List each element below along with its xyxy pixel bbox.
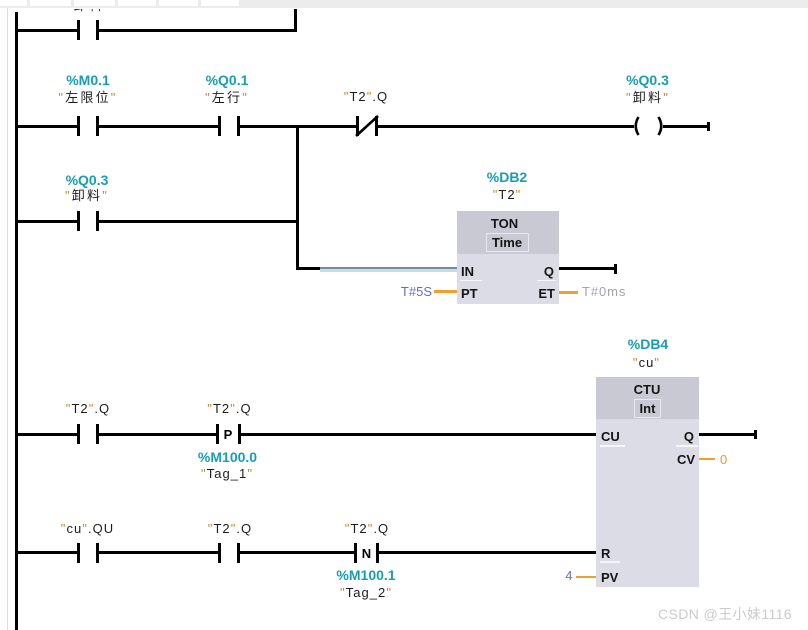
left border line	[7, 8, 8, 630]
tag %M100.0	[198, 450, 257, 464]
tag name Tag_1	[201, 467, 253, 481]
tag "cu".QU	[61, 522, 114, 536]
contact "T2".Q (NC)	[356, 116, 359, 136]
tag name 卸料 (coil)	[626, 91, 670, 105]
network 1 clipped tag text	[67, 9, 111, 15]
top toolbar strip	[0, 0, 808, 8]
wire rung5 rail to contact1	[16, 551, 77, 554]
tag name cu	[633, 356, 660, 370]
wire Q output CTU	[699, 433, 754, 436]
tag "T2".Q (rung5 c3)	[345, 522, 389, 536]
TON title	[491, 217, 518, 230]
wire Q output	[559, 267, 614, 270]
contact N edge rung5	[354, 543, 357, 563]
wire rung1 contact to branch	[99, 29, 297, 32]
pin IN	[461, 265, 474, 278]
contact %Q0.1 (NO)	[218, 116, 221, 136]
tag %Q0.3 (rung3)	[66, 173, 109, 187]
wire rung5 c2 to c3	[240, 551, 354, 554]
wire rung4 c1 to c2	[99, 433, 218, 436]
wire rung3 rail to contact	[16, 220, 77, 223]
contact "cu".QU (NO)	[77, 543, 80, 563]
wire rung2 coil to end	[663, 125, 707, 128]
contact "T2".Q rung4 (NO)	[77, 424, 80, 444]
end tick rung2	[707, 122, 710, 131]
tag %Q0.1	[206, 73, 249, 87]
pin ET	[538, 287, 555, 300]
branch down rung2 to timer	[296, 125, 299, 270]
tag name Tag_2	[340, 586, 392, 600]
pin CU	[601, 430, 620, 443]
contact rung1 (NO)	[77, 20, 80, 40]
timer block TON header	[457, 211, 559, 254]
tag "T2".Q (rung4 c2)	[207, 402, 251, 416]
wire CV orange	[699, 458, 715, 461]
tag %M100.1	[336, 568, 395, 582]
pin separator IN	[460, 280, 482, 282]
pin CV	[677, 453, 695, 466]
branch up rung1	[294, 9, 297, 32]
wire PT orange	[434, 290, 457, 293]
pin separator Q CTU	[676, 445, 698, 447]
edge letter N	[362, 547, 371, 560]
Int type box	[634, 399, 661, 418]
timer block TON body	[457, 211, 559, 304]
wire rung2 NC to coil	[378, 125, 634, 128]
tag %M0.1	[66, 73, 110, 87]
wire IN highlighted dark	[320, 267, 457, 270]
watermark CSDN	[658, 608, 792, 621]
pin PV	[601, 571, 618, 584]
pin Q	[544, 265, 554, 278]
wire rung2 contact1 to contact2	[99, 125, 218, 128]
contact P edge rung4	[216, 424, 219, 444]
value 0	[720, 453, 727, 466]
left power rail	[15, 12, 18, 630]
pin separator Q	[537, 280, 556, 282]
wire rung3 contact to branch	[99, 220, 297, 223]
edge letter P	[224, 428, 233, 441]
wire rung2 contact2 to NC contact	[240, 125, 356, 128]
wire rung5 c1 to c2	[99, 551, 218, 554]
value 4	[565, 569, 572, 582]
wire IN stub black	[296, 267, 320, 270]
tag "T2".Q (rung5 c2)	[208, 522, 252, 536]
counter block CTU header	[596, 377, 699, 419]
CTU title	[634, 383, 661, 396]
tag name 卸料 (rung3)	[65, 189, 109, 203]
wire IN highlighted light	[320, 269, 457, 272]
counter block CTU body	[596, 377, 699, 587]
contact "T2".Q rung5 (NO)	[218, 543, 221, 563]
pin Q (CTU)	[684, 430, 694, 443]
wire rung4 to CU	[241, 433, 597, 436]
contact %M0.1 (NO)	[77, 116, 80, 136]
wire rung2 rail to contact1	[16, 125, 77, 128]
tag name T2	[493, 188, 522, 202]
pin PT	[461, 287, 478, 300]
tag %Q0.3 (coil)	[626, 73, 669, 87]
wire rung1 rail to contact	[16, 29, 77, 32]
tag name 左行	[205, 91, 249, 105]
coil %Q0.3	[631, 116, 640, 136]
end tick Q CTU	[754, 430, 757, 439]
tag %DB2	[487, 170, 527, 184]
wire rung4 rail to contact1	[16, 433, 77, 436]
Time type box	[486, 233, 529, 252]
wire PV orange	[576, 576, 596, 579]
tag "T2".Q (rung4 c1)	[66, 402, 110, 416]
value T#0ms	[582, 285, 626, 298]
contact %Q0.3 (NO)	[77, 211, 80, 231]
tag "T2".Q (NC contact rung2)	[344, 90, 388, 104]
value T#5S	[401, 285, 432, 298]
wire ET orange	[559, 291, 578, 294]
end tick Q TON	[614, 264, 617, 274]
wire rung5 to R	[379, 551, 596, 554]
pin separator CU	[600, 445, 625, 447]
tag name 左限位	[58, 91, 117, 105]
pin R	[601, 547, 610, 560]
tag %DB4	[628, 337, 668, 351]
pin separator R	[600, 561, 620, 563]
